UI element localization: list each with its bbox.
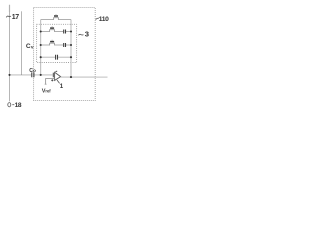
capacitor Cn bbox=[56, 55, 58, 60]
label 110 leader bbox=[96, 18, 99, 19]
reset switch bbox=[54, 14, 59, 20]
fixed capacitor row wire bbox=[41, 56, 71, 58]
node dot on electrode 18 bbox=[8, 74, 10, 76]
noninverting input stub to Vref bbox=[46, 79, 55, 84]
Vref terminal tick bbox=[45, 83, 47, 85]
svg-text:o: o bbox=[33, 68, 36, 73]
svg-text:ref: ref bbox=[45, 89, 51, 94]
switch S1 bbox=[50, 26, 55, 32]
label 18 leader loop bbox=[8, 103, 11, 107]
left bus wire bbox=[40, 20, 42, 75]
node dot output bbox=[70, 76, 72, 78]
node dot feedback tee bbox=[40, 74, 42, 76]
label 3 leader bbox=[78, 33, 83, 36]
node dots row1 bbox=[40, 30, 42, 32]
svg-text:v: v bbox=[31, 46, 34, 51]
label 1 leader bbox=[57, 80, 60, 83]
svg-text:17: 17 bbox=[12, 14, 19, 21]
svg-text:18: 18 bbox=[15, 102, 22, 109]
outer dash-dot box 110 bbox=[34, 8, 96, 101]
switch S2 bbox=[50, 40, 55, 46]
op-amp input wire left bbox=[10, 74, 32, 76]
output wire tail bbox=[95, 76, 107, 78]
svg-text:110: 110 bbox=[99, 16, 109, 23]
electrode line 17 underlay bbox=[21, 12, 23, 75]
capacitor C2 bbox=[64, 43, 66, 47]
branch row 2 wire bbox=[41, 44, 71, 46]
electrode line 18 (left vertical dashed) bbox=[9, 5, 11, 12]
right bus wire bbox=[70, 20, 72, 78]
plus sign bbox=[51, 79, 53, 81]
op-amp input wire right bbox=[35, 74, 53, 76]
node dots row2 bbox=[40, 44, 42, 46]
svg-text:3: 3 bbox=[85, 29, 89, 38]
label 18 leader dash bbox=[12, 104, 14, 106]
inner dotted box 3 (capacitor array) bbox=[37, 24, 77, 62]
svg-text:1: 1 bbox=[60, 83, 64, 90]
node dots fixed row bbox=[40, 56, 42, 58]
reset row wire bbox=[41, 19, 71, 21]
electrode line 17 (second vertical dashed) bbox=[21, 12, 23, 75]
capacitor C1 bbox=[64, 30, 66, 34]
coupling capacitor Co bbox=[32, 72, 34, 77]
label 17 leader bbox=[6, 16, 11, 17]
branch row 1 wire bbox=[41, 31, 71, 33]
output wire bbox=[61, 76, 96, 78]
op-amp U1 bbox=[53, 71, 60, 80]
